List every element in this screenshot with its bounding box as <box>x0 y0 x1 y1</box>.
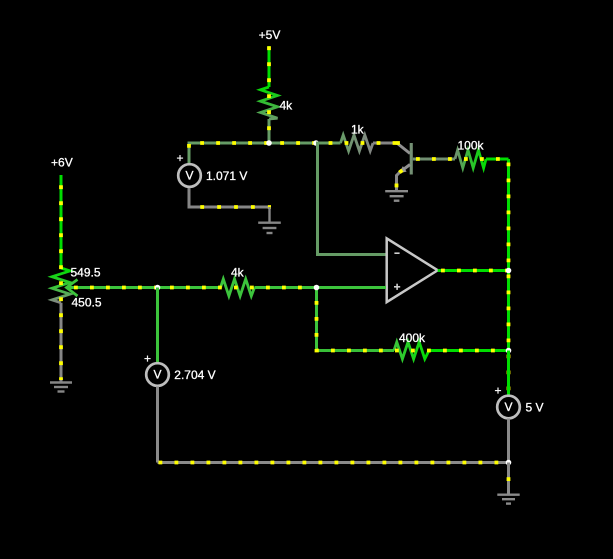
wire op-amp output to right rail <box>438 269 509 272</box>
resistor R2 1k body <box>341 135 374 151</box>
ground G3 <box>497 495 519 504</box>
svg-text:+5V: +5V <box>259 28 281 42</box>
node C junction dot <box>155 285 161 291</box>
wire node C down to voltmeter VM2 <box>156 288 159 364</box>
transistor Q1 collector diagonal <box>398 144 411 154</box>
svg-text:450.5: 450.5 <box>72 296 102 310</box>
svg-text:1.071 V: 1.071 V <box>206 169 247 183</box>
transistor Q1 emitter diagonal with arrow <box>400 165 410 173</box>
wire pot bottom to ground G4 <box>60 303 63 382</box>
wire node A to node B <box>269 142 316 145</box>
resistor R3 100k leads <box>433 158 455 161</box>
current dot on G3 stub <box>507 477 511 481</box>
resistor R1 4k (vertical, +5V pull-up) <box>261 87 278 119</box>
current dots bottom rail <box>158 461 509 465</box>
wire VM1 bottom to ground G1 <box>189 188 270 207</box>
current dots Q1 emitter path <box>397 165 411 191</box>
wire wiper to node C <box>67 286 158 289</box>
resistor R6 400k body <box>394 342 429 359</box>
current dots node B to VM1 <box>189 143 316 160</box>
svg-text:400k: 400k <box>399 331 426 345</box>
wire feedback row left segment <box>317 349 395 352</box>
wire right rail (output column) <box>507 159 510 395</box>
wire node D to op-amp non-inverting input <box>317 286 387 289</box>
svg-text:549.5: 549.5 <box>71 266 101 280</box>
wire feedback row right segment to rail <box>429 349 509 352</box>
current dot at collector corner <box>396 141 400 145</box>
svg-text:4k: 4k <box>280 99 294 113</box>
svg-text:+: + <box>176 151 183 165</box>
wire Q1 emitter to ground G2 <box>397 172 401 190</box>
potentiometer R4 body <box>52 268 70 303</box>
voltmeter VM1 circle <box>178 164 201 187</box>
svg-text:+6V: +6V <box>51 156 73 170</box>
svg-text:V: V <box>185 169 193 183</box>
current dots base/100k/rail run <box>414 159 509 393</box>
current dots VM1 ground wire <box>189 205 271 209</box>
transistor Q1 base lead <box>413 158 433 161</box>
current dots on +5V branch <box>267 46 271 143</box>
wire +6V lead down to potentiometer <box>60 175 63 268</box>
ground G4 <box>50 383 72 392</box>
wire node C to R5 <box>158 286 221 289</box>
wire R5 to node D <box>255 286 317 289</box>
voltmeter VM2 circle <box>146 363 169 386</box>
wire rail down to voltmeter VM3 <box>507 351 510 396</box>
wire bottom rail <box>158 461 509 464</box>
svg-text:5 V: 5 V <box>526 400 544 414</box>
transistor Q1 base bar <box>410 143 413 175</box>
wire +5V lead down to R1 <box>268 46 271 87</box>
svg-text:+: + <box>494 384 501 398</box>
op-amp U1 minus mark <box>394 252 399 254</box>
svg-text:V: V <box>504 400 512 414</box>
wire VM2 bottom to bottom rail <box>156 387 159 463</box>
resistor R2 1k leads <box>316 142 341 145</box>
node D junction dot <box>314 285 320 291</box>
current dots wiper through 4k and feedback <box>67 288 509 351</box>
voltmeter VM3 circle <box>497 396 520 419</box>
resistor R3 100k body <box>455 150 486 168</box>
wire node A left to voltmeter VM1 <box>189 143 269 163</box>
wire node D down to feedback row <box>315 288 318 351</box>
current dots R2 run <box>321 141 397 145</box>
svg-text:4k: 4k <box>231 266 245 280</box>
op-amp U1 plus mark <box>394 286 400 288</box>
svg-text:+: + <box>144 352 151 366</box>
wire R1 bottom lead to node A <box>268 119 271 143</box>
ground G2 <box>385 191 408 201</box>
node A junction dot <box>266 140 272 146</box>
node E junction dot <box>506 460 512 466</box>
potentiometer R4 wiper arrow <box>67 280 78 297</box>
svg-text:1k: 1k <box>351 123 365 137</box>
resistor R5 4k body <box>221 279 255 296</box>
node feedback-rail junction dot <box>506 348 512 354</box>
current dots output wire <box>441 269 509 273</box>
op-amp U1 triangle <box>387 238 438 302</box>
ground G1 <box>258 207 281 233</box>
svg-text:2.704 V: 2.704 V <box>174 368 215 382</box>
node output junction dot <box>506 268 512 274</box>
wire VM3 bottom to node E <box>507 419 510 463</box>
svg-text:100k: 100k <box>458 139 485 153</box>
node B junction dot <box>313 140 319 146</box>
svg-text:V: V <box>153 368 161 382</box>
wire node B down and right to op-amp inverting input <box>316 143 386 255</box>
wire node E to ground G3 <box>507 463 510 495</box>
current dots +6V through pot to ground <box>59 175 63 380</box>
